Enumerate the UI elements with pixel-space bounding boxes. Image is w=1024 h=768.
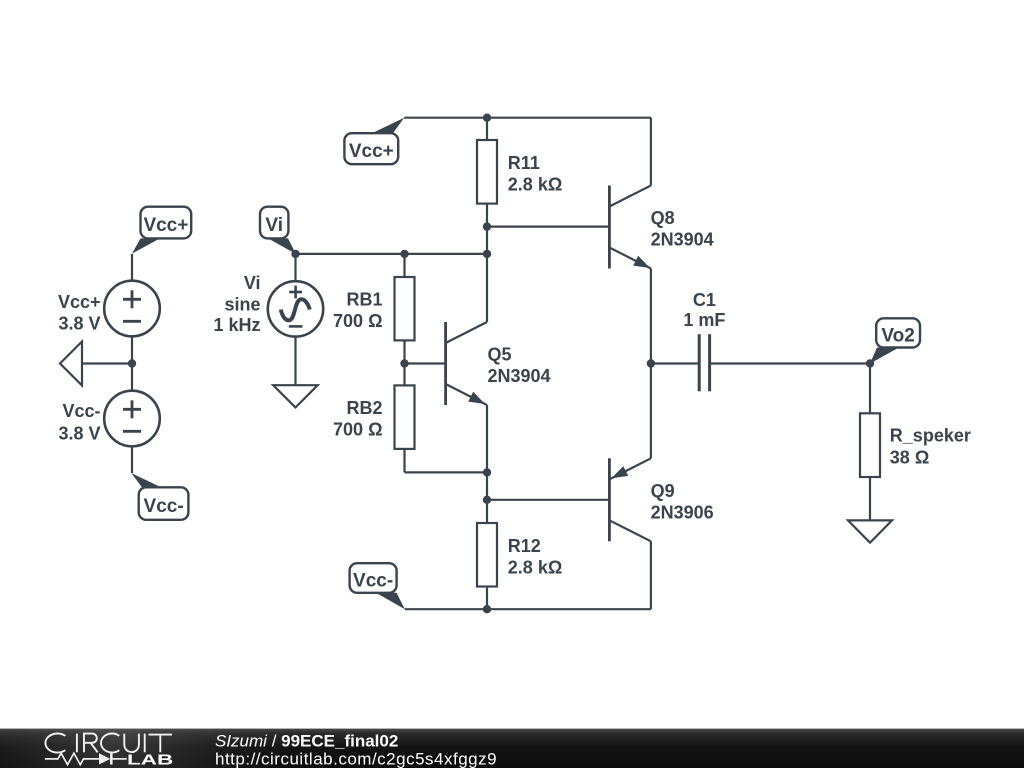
node Vi row / main column <box>483 250 491 258</box>
svg-text:Q5: Q5 <box>488 345 512 365</box>
wire R_speker to ground <box>869 477 871 520</box>
wire Q9 emitter column <box>650 364 652 459</box>
svg-text:R_speker: R_speker <box>890 425 971 445</box>
svg-text:sine: sine <box>224 295 260 315</box>
flag Vi <box>260 207 296 254</box>
wire Q5 emitter to node <box>486 405 488 472</box>
resistor RB2 <box>395 385 415 449</box>
transistor Q5 <box>446 322 487 405</box>
svg-text:2N3904: 2N3904 <box>488 366 551 386</box>
wire Q8 collector column <box>650 118 652 186</box>
svg-text:2.8 kΩ: 2.8 kΩ <box>508 557 562 577</box>
svg-text:Vo2: Vo2 <box>881 325 914 346</box>
wire Q8 base row <box>487 226 609 228</box>
wire main column Vi row to Q5 collector <box>486 254 488 322</box>
wire R12 top lead <box>486 500 488 523</box>
svg-text:700 Ω: 700 Ω <box>333 311 382 331</box>
svg-text:R12: R12 <box>508 536 541 556</box>
ground below Vi <box>273 385 318 407</box>
svg-text:Vi: Vi <box>265 215 283 236</box>
transistor Q8 <box>609 186 651 269</box>
wire R12 bottom lead <box>486 587 488 610</box>
svg-text:1 kHz: 1 kHz <box>213 315 260 335</box>
wire RB2 to main column <box>405 471 488 473</box>
node Vi row / RB1 <box>400 250 408 258</box>
node Vi flag <box>291 250 299 258</box>
svg-text:C1: C1 <box>693 290 716 310</box>
node Vo2 <box>866 359 874 367</box>
flags <box>131 118 920 610</box>
voltage source V1 Vcc+ <box>104 281 160 337</box>
svg-text:Vcc+: Vcc+ <box>143 215 188 236</box>
svg-text:Q8: Q8 <box>651 208 675 228</box>
footer bar <box>0 729 1024 768</box>
wire top rail <box>404 117 651 119</box>
logo zigzag resistor and diode <box>45 753 127 764</box>
wire R11 top lead <box>486 118 488 140</box>
wire Q9 base row <box>487 499 609 501</box>
wire Q9 collector column <box>650 541 652 609</box>
svg-text:38 Ω: 38 Ω <box>890 447 929 467</box>
svg-text:2N3906: 2N3906 <box>651 502 714 522</box>
wire V2 to Vcc- flag <box>131 446 133 473</box>
wire main column to Vi row <box>486 227 488 254</box>
svg-text:700 Ω: 700 Ω <box>333 420 382 440</box>
wire main column node to Q9 base node <box>486 472 488 499</box>
svg-text:RB1: RB1 <box>346 290 382 310</box>
flag Vcc- bottom <box>350 563 405 609</box>
node top rail / R11 <box>483 114 491 122</box>
node bottom rail / R12 <box>483 605 491 613</box>
svg-text:3.8 V: 3.8 V <box>58 423 100 443</box>
svg-text:RB2: RB2 <box>346 398 382 418</box>
svg-text:2.8 kΩ: 2.8 kΩ <box>508 175 562 195</box>
wire Vo2 to R_speker <box>869 364 871 414</box>
wire V1 to V2 <box>131 336 133 390</box>
flag Vo2 <box>870 318 920 363</box>
svg-text:SIzumi / 99ECE_final02: SIzumi / 99ECE_final02 <box>215 731 398 750</box>
wire Vi flag node to source <box>294 254 296 281</box>
node Q9 base <box>483 496 491 504</box>
logo CIRCUIT <box>45 734 172 753</box>
wire R11 bottom lead <box>486 204 488 227</box>
svg-text:2N3904: 2N3904 <box>651 230 714 250</box>
ground left arrow <box>60 342 82 386</box>
svg-text:R11: R11 <box>508 153 540 173</box>
svg-text:Q9: Q9 <box>651 481 675 501</box>
wire RB2 top lead <box>403 364 405 386</box>
wire RB1 bottom lead <box>403 340 405 363</box>
resistor R12 <box>477 523 497 587</box>
wire RB1 top lead <box>403 254 405 277</box>
resistor RB1 <box>395 277 415 340</box>
ground below R_speker <box>848 520 892 542</box>
wire C1 right lead to Vo2 <box>710 362 870 364</box>
svg-text:Vcc-: Vcc- <box>144 496 184 517</box>
transistor Q9 <box>609 458 651 541</box>
svg-text:Vcc+: Vcc+ <box>58 292 101 312</box>
svg-text:3.8 V: 3.8 V <box>58 313 100 333</box>
svg-text:http://circuitlab.com/c2gc5s4x: http://circuitlab.com/c2gc5s4xfggz9 <box>215 749 497 768</box>
voltage source Vi sine <box>268 281 323 336</box>
node RB1/RB2/Q5 base <box>400 359 408 367</box>
svg-text:LAB: LAB <box>127 753 173 768</box>
svg-text:Vcc-: Vcc- <box>62 401 100 421</box>
node left supply mid <box>128 359 136 367</box>
flag Vcc+ left <box>132 207 191 254</box>
wire to left ground <box>82 362 132 364</box>
wire Q8 emitter column <box>650 269 652 364</box>
node R11 bottom / Q8 base <box>483 222 491 230</box>
svg-text:1 mF: 1 mF <box>683 310 725 330</box>
wire C1 left lead <box>651 362 699 364</box>
flag Vcc+ top <box>344 118 404 165</box>
resistor R11 <box>477 140 497 204</box>
node C1 left <box>647 359 655 367</box>
wire Vi source to ground <box>294 337 296 386</box>
voltage source V2 Vcc- <box>104 391 160 447</box>
wire Q5 base row <box>405 362 446 364</box>
svg-text:Vi: Vi <box>244 273 261 293</box>
svg-text:Vcc+: Vcc+ <box>349 141 394 162</box>
resistor R_speker <box>860 413 880 477</box>
left supply: wire flag to V1 <box>131 254 133 281</box>
node Q5 emitter <box>483 468 491 476</box>
svg-text:Vcc-: Vcc- <box>353 571 393 592</box>
wire RB2 bottom lead <box>403 449 405 473</box>
capacitor C1 <box>699 334 709 391</box>
flag Vcc- left <box>131 473 188 520</box>
wire bottom rail <box>405 608 651 610</box>
wire Vi row <box>296 253 488 255</box>
